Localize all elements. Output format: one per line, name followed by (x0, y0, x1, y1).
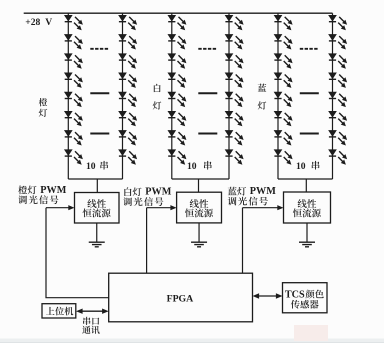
block FPGA (109, 273, 253, 322)
wire LED string col4 white-B (228, 13, 230, 179)
wire PWM arrow into orange current source (46, 207, 70, 209)
wire to ground U1 (96, 223, 98, 242)
label 串口通讯 (serial comm) (83, 317, 90, 325)
wire bottom bracket group 2 (172, 178, 229, 180)
svg-text:10: 10 (296, 161, 306, 172)
LEDs col3 white-A (8x) (168, 15, 186, 164)
bottom gray band (0, 339, 384, 343)
wire LED string col6 blue-B (332, 13, 334, 179)
continuation marks group 2 (198, 48, 217, 50)
LEDs col4 white-B (8x) (225, 15, 243, 164)
label blue PWM 调光信号 (228, 187, 237, 195)
wire bottom bracket group 3 (278, 178, 333, 180)
svg-text:V: V (45, 17, 52, 28)
svg-text:PWM: PWM (250, 186, 276, 197)
ground symbol U3 (299, 242, 315, 247)
label white PWM 调光信号 (124, 187, 131, 196)
wire LED string col1 orange-A (67, 13, 69, 179)
continuation marks group 1 (90, 48, 109, 50)
label 蓝灯 (blue lamp) (258, 84, 266, 92)
ground symbol U2 (191, 242, 207, 247)
wire LED string col5 blue-A (277, 13, 279, 179)
svg-text:PWM: PWM (145, 187, 171, 198)
block 线性恒流源 U2 (linear constant current source) (177, 192, 222, 223)
wire to ground U2 (198, 223, 200, 242)
wire LED string col3 white-A (171, 13, 173, 179)
block 上位机 (host computer) (42, 304, 76, 318)
wire bottom bracket group 1 (68, 178, 122, 180)
svg-text:10: 10 (86, 161, 96, 172)
wire serial link double arrow (80, 310, 105, 312)
wire orange PWM feed from FPGA left (46, 208, 109, 298)
wire to ground U3 (306, 223, 308, 242)
label 橙灯 (orange lamp) (39, 98, 47, 106)
wire LED string col2 orange-B (122, 13, 124, 179)
svg-text:PWM: PWM (40, 185, 66, 196)
LEDs col2 orange-B (8x) (119, 15, 137, 164)
wire PWM arrow into blue current source (243, 207, 279, 209)
wire stem to current source 3 (305, 179, 307, 192)
ground symbol U1 (89, 242, 105, 247)
block 线性恒流源 U1 (linear constant current source) (75, 193, 120, 224)
LEDs col6 blue-B (8x) (329, 15, 347, 164)
svg-text:+28: +28 (25, 17, 40, 28)
wire PWM arrow into white current source (147, 207, 172, 209)
faint pink artifact below TCS box (294, 325, 328, 341)
wire white PWM feed from FPGA top (146, 208, 148, 274)
wire TCS double arrow (256, 295, 279, 297)
continuation marks group 3 (300, 48, 319, 50)
+28V supply rail (24, 12, 333, 14)
svg-text:10: 10 (187, 161, 197, 172)
LEDs col5 blue-A (8x) (274, 15, 292, 164)
wire blue PWM feed from FPGA top (242, 208, 244, 274)
block 线性恒流源 U3 (linear constant current source) (284, 192, 331, 223)
LEDs col1 orange-A (8x) (65, 15, 83, 164)
wire stem to current source 1 (96, 179, 98, 193)
svg-text:FPGA: FPGA (167, 294, 194, 305)
block TCS颜色传感器 (TCS color sensor) (283, 283, 328, 313)
svg-text:TCS: TCS (285, 289, 305, 300)
label orange PWM 调光信号 (18, 186, 27, 195)
wire stem to current source 2 (198, 179, 200, 192)
label 白灯 (white lamp) (154, 84, 161, 92)
